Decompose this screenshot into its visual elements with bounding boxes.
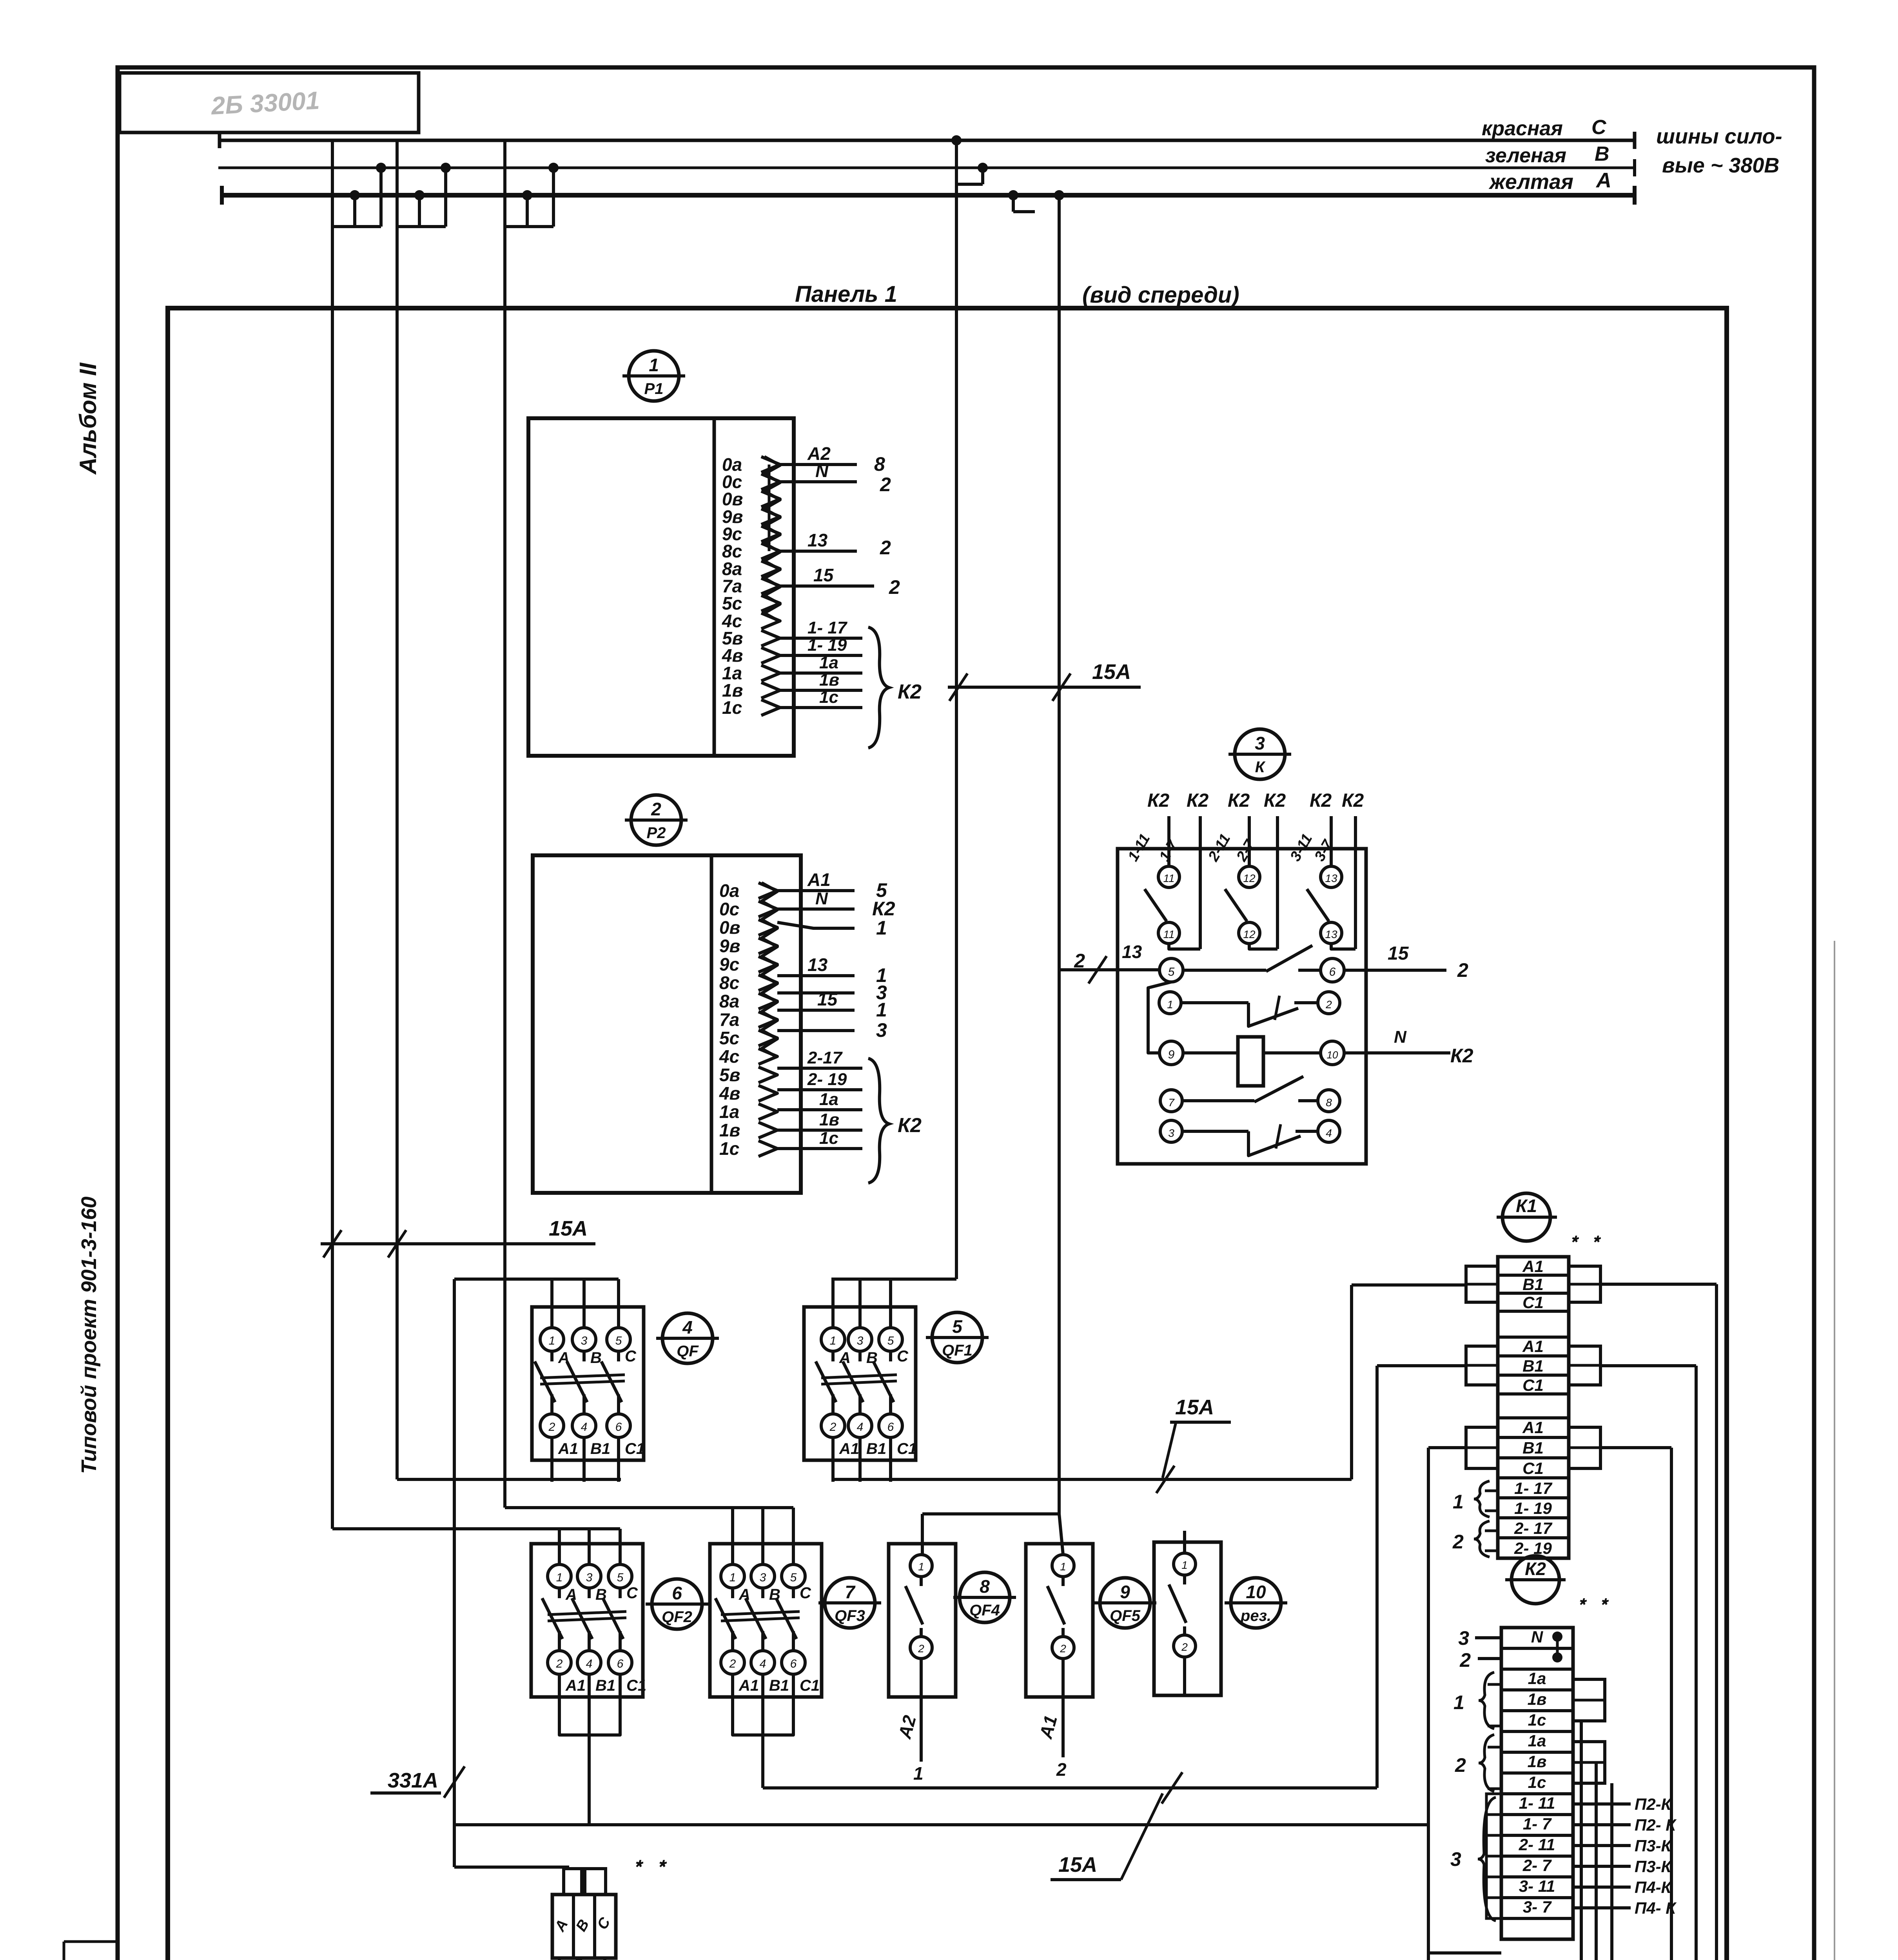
breaker QF5 body: [1026, 1544, 1093, 1697]
feeder wire x=1288 down to QF3 row: [503, 227, 506, 1508]
callout circle 10/rez: [1231, 1578, 1281, 1628]
svg-text:С1: С1: [800, 1677, 820, 1694]
svg-text:2: 2: [1060, 1642, 1066, 1655]
wire up to K1 group3: [1427, 1448, 1430, 1825]
svg-text:2-17: 2-17: [807, 1048, 843, 1067]
callout circle 5/QF1: [932, 1312, 982, 1363]
svg-text:11: 11: [1163, 928, 1174, 940]
svg-text:5с: 5с: [719, 1028, 739, 1048]
svg-text:5: 5: [617, 1571, 624, 1584]
wire QF2 B1 down: [588, 1719, 591, 1825]
svg-text:﹡﹡: ﹡﹡: [625, 1853, 672, 1879]
block P1 wire 13/2: [780, 550, 857, 553]
svg-text:1: 1: [649, 355, 659, 375]
svg-text:5в: 5в: [719, 1065, 740, 1085]
svg-text:1: 1: [876, 999, 887, 1021]
callout circle 2/P2: [631, 795, 681, 845]
svg-text:QF5: QF5: [1110, 1607, 1141, 1624]
svg-text:7: 7: [1168, 1096, 1175, 1109]
K2 group3 left stubs: [1486, 1794, 1501, 1918]
contactor K aux pole 3 bottom link: [1331, 944, 1355, 949]
breaker QF5 output wire A1/2: [1062, 1659, 1065, 1757]
svg-text:А1: А1: [565, 1677, 586, 1694]
K2 P-K wires: [1573, 1802, 1631, 1806]
svg-text:8: 8: [980, 1576, 990, 1597]
wire K1 cable down to K1 circle: [1427, 1825, 1430, 1960]
svg-text:1с: 1с: [1528, 1773, 1546, 1791]
breaker QF4 output wire A2/1: [920, 1659, 923, 1762]
breaker QF3 pole 1: [731, 1508, 734, 1564]
svg-text:4с: 4с: [719, 1046, 739, 1067]
svg-text:1: 1: [1453, 1691, 1464, 1713]
breaker QF pole 2: [582, 1279, 586, 1328]
svg-text:2: 2: [1455, 1754, 1466, 1776]
svg-text:4: 4: [586, 1657, 593, 1670]
block P1 wire 1- 17: [780, 637, 862, 640]
svg-text:1: 1: [729, 1571, 736, 1584]
breaker QF top feed bus: [454, 1278, 619, 1281]
svg-text:13: 13: [1325, 872, 1337, 884]
wire QF1 feed from bus down: [955, 1278, 956, 1281]
left stamp column boxes: [63, 1942, 65, 1960]
svg-text:А: А: [558, 1349, 570, 1367]
block P2 wire 3b: [777, 1029, 855, 1032]
contactor K main contact 5-6: [1159, 958, 1183, 982]
svg-text:4: 4: [682, 1317, 693, 1338]
svg-text:1в: 1в: [1528, 1752, 1547, 1771]
svg-text:N: N: [815, 461, 829, 481]
block P1 wire 15/2: [780, 584, 874, 588]
block P1 wire N/2: [780, 480, 857, 483]
label 15A on 4561 run: [1162, 1772, 1183, 1804]
contactor K lead 15/2 right: [1344, 969, 1446, 972]
svg-text:В: В: [769, 1586, 780, 1603]
svg-text:1: 1: [549, 1334, 555, 1347]
svg-text:1а: 1а: [1528, 1731, 1546, 1750]
breaker QF3 trip bar: [721, 1612, 800, 1615]
svg-text:1: 1: [876, 917, 887, 939]
svg-text:С1: С1: [1522, 1459, 1544, 1477]
svg-text:А: А: [839, 1349, 851, 1367]
svg-text:А1: А1: [839, 1440, 859, 1457]
wire up to K1 group2: [1375, 1366, 1379, 1788]
svg-text:К: К: [1255, 759, 1266, 776]
block P2 body: [533, 855, 801, 1193]
svg-text:4: 4: [581, 1421, 588, 1434]
breaker 10 bottom stub: [1183, 1657, 1186, 1695]
wire 15A between feeders: [948, 686, 1141, 689]
svg-text:1- 11: 1- 11: [1519, 1794, 1555, 1812]
svg-text:1в: 1в: [819, 1110, 839, 1129]
bus jog x=2507: [981, 168, 984, 184]
svg-text:2: 2: [918, 1642, 924, 1655]
svg-text:К2: К2: [1310, 790, 1332, 811]
svg-text:13: 13: [807, 955, 828, 975]
block P1 terminal chevrons: [761, 457, 780, 472]
svg-text:С: С: [800, 1584, 811, 1602]
stamp box top-left: [120, 73, 419, 132]
K1 strip left stub group 3: [1466, 1427, 1498, 1468]
callout circle 9/QF5: [1100, 1578, 1150, 1628]
block P1 link 0a-8c: [768, 465, 771, 551]
svg-text:5: 5: [952, 1316, 963, 1337]
breaker QF4 contact: [910, 1555, 932, 1577]
svg-text:В1: В1: [1522, 1439, 1544, 1457]
svg-text:2: 2: [548, 1421, 555, 1434]
callout circle 6/QF2: [652, 1579, 702, 1629]
feeder wire x=1013 down to QF collector: [396, 227, 399, 1479]
svg-text:1с: 1с: [722, 697, 742, 718]
svg-text:С1: С1: [1522, 1376, 1544, 1394]
wire run y=4561 QF3 to K1 group2: [763, 1786, 1377, 1789]
svg-text:С: С: [625, 1348, 637, 1365]
svg-text:QF3: QF3: [835, 1607, 865, 1624]
breaker QF1 top feed bus: [831, 1278, 955, 1281]
K1 strip left stub group 2: [1466, 1346, 1498, 1385]
breaker QF1 pole 3: [889, 1279, 892, 1328]
contactor K aux pole 3 wires: [1330, 816, 1333, 866]
svg-text:8: 8: [874, 453, 885, 475]
breaker QF3 bottom U: [733, 1719, 793, 1735]
svg-text:Р1: Р1: [644, 380, 664, 397]
wire QF3 B1 down: [761, 1719, 764, 1788]
svg-text:2: 2: [1459, 1649, 1471, 1671]
K1 brace group 2: [1474, 1521, 1490, 1557]
svg-text:5: 5: [887, 1334, 894, 1347]
svg-text:2: 2: [1056, 1759, 1067, 1780]
block P2 wire 3a: [777, 991, 855, 995]
svg-text:3: 3: [586, 1571, 593, 1584]
svg-text:1а: 1а: [819, 1090, 838, 1109]
svg-text:﹡﹡: ﹡﹡: [1570, 1591, 1614, 1616]
svg-text:1в: 1в: [819, 670, 839, 690]
K2 strip body: [1501, 1628, 1573, 1939]
svg-text:2: 2: [556, 1657, 563, 1670]
K1 strip body: [1498, 1257, 1569, 1558]
bus tap comb at x=1288: [503, 140, 506, 227]
svg-text:В1: В1: [866, 1440, 886, 1457]
block P1 wire 1с: [780, 706, 862, 709]
svg-text:С: С: [626, 1584, 638, 1602]
callout circle K1: [1502, 1193, 1550, 1241]
svg-text:4в: 4в: [719, 1083, 740, 1103]
additional terminal block body: [552, 1895, 616, 1958]
svg-text:(вид спереди): (вид спереди): [1082, 282, 1239, 308]
svg-text:3- 11: 3- 11: [1519, 1877, 1555, 1895]
K2 brace cable 2: [1479, 1735, 1494, 1791]
svg-text:1: 1: [556, 1571, 563, 1584]
svg-text:3: 3: [876, 1019, 887, 1041]
svg-text:К2: К2: [1525, 1559, 1546, 1579]
svg-text:1с: 1с: [1528, 1711, 1546, 1729]
svg-text:В: В: [866, 1349, 878, 1367]
breaker QF body: [532, 1307, 644, 1460]
svg-text:10: 10: [1246, 1582, 1266, 1602]
svg-text:6: 6: [887, 1421, 894, 1434]
svg-text:3- 7: 3- 7: [1523, 1898, 1552, 1916]
svg-text:QF1: QF1: [942, 1342, 973, 1359]
svg-text:11: 11: [1163, 872, 1174, 884]
breaker 10 top stub: [1183, 1531, 1186, 1553]
svg-text:15А: 15А: [549, 1217, 588, 1240]
svg-text:7а: 7а: [719, 1009, 739, 1030]
svg-text:3: 3: [857, 1334, 864, 1347]
svg-text:2: 2: [880, 537, 891, 559]
contactor K coil lead N/K2: [1344, 1051, 1450, 1054]
svg-text:9: 9: [1168, 1048, 1175, 1061]
svg-text:3: 3: [760, 1571, 766, 1584]
svg-text:15: 15: [813, 565, 834, 585]
wire up to K1 group1: [1350, 1285, 1353, 1479]
svg-text:3: 3: [581, 1334, 588, 1347]
svg-text:1: 1: [830, 1334, 836, 1347]
svg-text:0в: 0в: [719, 917, 740, 938]
svg-text:А1: А1: [739, 1677, 759, 1694]
svg-text:8а: 8а: [719, 991, 739, 1011]
breaker 10 contact: [1174, 1553, 1196, 1575]
outer sheet edge line right: [1834, 941, 1835, 1960]
svg-text:3: 3: [1450, 1848, 1461, 1870]
svg-text:вые ~ 380В: вые ~ 380В: [1662, 154, 1779, 177]
K1 strip right stub group 3: [1569, 1427, 1600, 1468]
K1 strip right stub group 2: [1569, 1346, 1600, 1385]
svg-text:Панель 1: Панель 1: [795, 281, 897, 307]
svg-text:10: 10: [1327, 1049, 1338, 1061]
breaker QF1 pole 1: [831, 1279, 835, 1328]
svg-text:5: 5: [790, 1571, 797, 1584]
svg-text:шины сило-: шины сило-: [1656, 125, 1782, 148]
svg-text:К2: К2: [898, 681, 922, 703]
callout circle 3/K: [1235, 729, 1285, 779]
svg-text:1: 1: [913, 1763, 924, 1784]
contactor K aux pole 2 contact: [1239, 866, 1260, 887]
contactor K aux pole 1 wires: [1167, 816, 1170, 866]
bus tap comb at x=1013: [396, 140, 399, 227]
wire run y=4655 331A to K1 group3: [454, 1823, 1428, 1826]
breaker QF5 diagonal feed: [1059, 1514, 1063, 1555]
svg-text:1- 19: 1- 19: [807, 635, 847, 655]
svg-text:красная: красная: [1482, 117, 1563, 140]
svg-text:2: 2: [1074, 950, 1085, 972]
svg-text:8с: 8с: [719, 973, 739, 993]
block P2 wire 2-17: [777, 1067, 862, 1070]
K1 group3 right wire to H3: [1600, 1446, 1671, 1449]
wire 331A slash and label: [444, 1766, 465, 1798]
svg-text:2: 2: [1457, 959, 1468, 981]
svg-text:1в: 1в: [719, 1120, 740, 1140]
svg-text:7: 7: [845, 1582, 856, 1602]
svg-text:С1: С1: [1522, 1293, 1544, 1312]
svg-text:15: 15: [817, 989, 838, 1009]
svg-text:N: N: [1531, 1628, 1544, 1646]
svg-text:С1: С1: [626, 1677, 646, 1694]
svg-text:13: 13: [1122, 942, 1142, 962]
svg-text:К2: К2: [1187, 790, 1209, 811]
svg-text:К2: К2: [1147, 790, 1170, 811]
svg-text:3: 3: [1255, 733, 1265, 753]
svg-text:1с: 1с: [819, 1129, 838, 1148]
breaker QF trip bar: [540, 1375, 625, 1378]
svg-text:3: 3: [1168, 1127, 1174, 1139]
K2 left lead 2: [1478, 1657, 1501, 1660]
contactor K contact 3-4: [1160, 1120, 1182, 1142]
callout circle 7/QF3: [825, 1578, 875, 1628]
svg-text:К2: К2: [872, 898, 895, 920]
contactor K left link vertical: [1148, 982, 1171, 1053]
feeder wire x=2702 from bus A: [1058, 195, 1061, 1514]
svg-text:В1: В1: [595, 1677, 615, 1694]
svg-text:N: N: [815, 889, 828, 908]
svg-text:П2-К: П2-К: [1635, 1795, 1673, 1813]
svg-text:1а: 1а: [1528, 1669, 1546, 1688]
breaker QF3 pole 2: [761, 1508, 764, 1564]
svg-text:В: В: [1595, 143, 1609, 165]
callout circle K2: [1512, 1556, 1559, 1604]
svg-text:А1: А1: [807, 869, 831, 890]
block P2 wire 1с: [777, 1147, 862, 1150]
svg-text:1а: 1а: [819, 653, 838, 672]
svg-text:А1: А1: [1522, 1418, 1544, 1437]
callout circle 8/QF4: [960, 1572, 1010, 1622]
block P1 wire 1в: [780, 689, 862, 692]
svg-text:2- 19: 2- 19: [807, 1070, 847, 1089]
svg-text:1в: 1в: [1528, 1690, 1547, 1708]
svg-text:331А: 331А: [388, 1769, 438, 1792]
svg-text:6: 6: [790, 1657, 797, 1670]
svg-text:1с: 1с: [719, 1138, 739, 1159]
svg-text:2- 11: 2- 11: [1519, 1835, 1555, 1854]
svg-text:С: С: [897, 1348, 909, 1365]
svg-text:5: 5: [1168, 965, 1175, 978]
breaker QF bottom collector: [397, 1478, 621, 1481]
svg-text:К2: К2: [1264, 790, 1286, 811]
feeder wire x=848 down to QF2 row: [331, 227, 334, 1529]
svg-text:П3-К: П3-К: [1635, 1837, 1673, 1855]
breaker QF3 body: [710, 1544, 822, 1697]
block P1 wire A2/8: [780, 463, 857, 466]
breaker QF2 body: [531, 1544, 643, 1697]
K1 group1 right wire to H2: [1600, 1283, 1717, 1286]
svg-text:9в: 9в: [719, 936, 740, 956]
svg-text:1: 1: [1167, 998, 1173, 1011]
svg-text:15: 15: [1388, 943, 1409, 964]
svg-text:А1: А1: [1522, 1337, 1544, 1356]
svg-text:﹡﹡: ﹡﹡: [1562, 1229, 1606, 1253]
breaker QF2 pole 3: [619, 1529, 622, 1564]
svg-text:К2: К2: [1228, 790, 1250, 811]
additional terminal block stubs top: [564, 1869, 582, 1895]
breaker QF4 feed: [921, 1514, 924, 1555]
svg-text:П4- К: П4- К: [1635, 1899, 1677, 1917]
block P1 wire 1а: [780, 671, 862, 675]
K1 brace group 1: [1474, 1481, 1490, 1517]
svg-text:1- 17: 1- 17: [807, 618, 848, 637]
wire K2 strip bottom link to K1 cable: [1428, 1951, 1501, 1955]
block P1 heater zigzag: [764, 457, 780, 622]
contactor K body: [1118, 849, 1366, 1164]
svg-text:6: 6: [617, 1657, 624, 1670]
svg-text:К2: К2: [1342, 790, 1364, 811]
svg-text:2: 2: [1452, 1531, 1464, 1553]
svg-text:2: 2: [651, 799, 661, 819]
block P1 wire 1- 19: [780, 654, 862, 657]
breaker QF1 trip bar: [821, 1375, 897, 1378]
breaker QF pole 3: [617, 1279, 620, 1328]
svg-text:6: 6: [615, 1421, 622, 1434]
breaker QF4 body: [889, 1544, 956, 1697]
svg-text:1: 1: [1453, 1491, 1464, 1513]
svg-text:1а: 1а: [719, 1102, 739, 1122]
svg-text:4: 4: [857, 1421, 864, 1434]
svg-text:1- 17: 1- 17: [1514, 1479, 1552, 1497]
svg-text:желтая: желтая: [1488, 170, 1573, 194]
block P2 wire 15/1: [777, 1009, 855, 1012]
svg-text:1: 1: [1181, 1559, 1188, 1571]
breaker QF2 trip bar: [548, 1612, 626, 1615]
K2 brace cable 1: [1479, 1672, 1494, 1729]
svg-text:В: В: [590, 1349, 602, 1367]
svg-text:В1: В1: [769, 1677, 789, 1694]
svg-text:К2: К2: [1450, 1045, 1473, 1067]
wire K2 right bundle v1: [1580, 1721, 1583, 1960]
svg-text:П3-К: П3-К: [1635, 1857, 1673, 1876]
svg-text:9: 9: [1120, 1582, 1130, 1602]
breaker QF2 pole 1: [558, 1529, 561, 1564]
svg-text:15А: 15А: [1175, 1396, 1214, 1419]
breaker QF2 pole 2: [588, 1529, 591, 1564]
K1 strip right stub group 1: [1569, 1266, 1600, 1302]
svg-text:4: 4: [1326, 1127, 1332, 1139]
K1 strip left stub group 1: [1466, 1266, 1498, 1302]
svg-text:15А: 15А: [1092, 660, 1131, 684]
breaker QF2 feed bus: [332, 1527, 620, 1530]
contactor K aux pole 1 bottom link: [1169, 944, 1200, 949]
breaker QF1 bottom collector to K1 (15A run): [832, 1478, 1352, 1481]
svg-text:4: 4: [760, 1657, 766, 1670]
callout circle 1/P1: [629, 351, 679, 401]
svg-text:QF2: QF2: [662, 1608, 692, 1626]
block P2 wire N/K2: [777, 907, 855, 911]
svg-text:QF4: QF4: [969, 1602, 1000, 1619]
power bus B green: [218, 167, 1635, 169]
svg-text:1: 1: [918, 1561, 924, 1573]
svg-text:1с: 1с: [819, 688, 838, 707]
svg-text:В1: В1: [590, 1440, 610, 1457]
svg-text:2: 2: [729, 1657, 736, 1670]
wire K2 right bundle v2: [1595, 1762, 1598, 1960]
svg-text:А1: А1: [1522, 1257, 1544, 1276]
svg-text:9с: 9с: [719, 954, 739, 975]
breaker QF2 bottom U: [559, 1719, 620, 1735]
wire QF top bus down to 331A run: [453, 1279, 456, 1867]
breaker QF pole 1: [550, 1279, 553, 1328]
contactor K aux pole 3 contact: [1321, 866, 1342, 887]
svg-text:Типовой проект 901-3-160: Типовой проект 901-3-160: [77, 1196, 101, 1474]
svg-text:А1: А1: [558, 1440, 578, 1457]
svg-text:2Б 33001: 2Б 33001: [210, 86, 320, 120]
K2 right stub group B: [1573, 1742, 1605, 1783]
svg-text:2: 2: [880, 474, 891, 495]
panel rectangle Panel 1: [168, 308, 1727, 1960]
svg-text:2: 2: [1181, 1641, 1188, 1653]
svg-text:П4-К: П4-К: [1635, 1878, 1673, 1896]
K2 brace cable 3: [1478, 1797, 1496, 1921]
breaker QF3 feed bus: [505, 1506, 793, 1509]
jog stub x=2585: [1012, 195, 1015, 212]
svg-text:зеленая: зеленая: [1485, 144, 1566, 167]
power bus C red: [220, 139, 1635, 142]
svg-text:2- 17: 2- 17: [1514, 1519, 1552, 1537]
